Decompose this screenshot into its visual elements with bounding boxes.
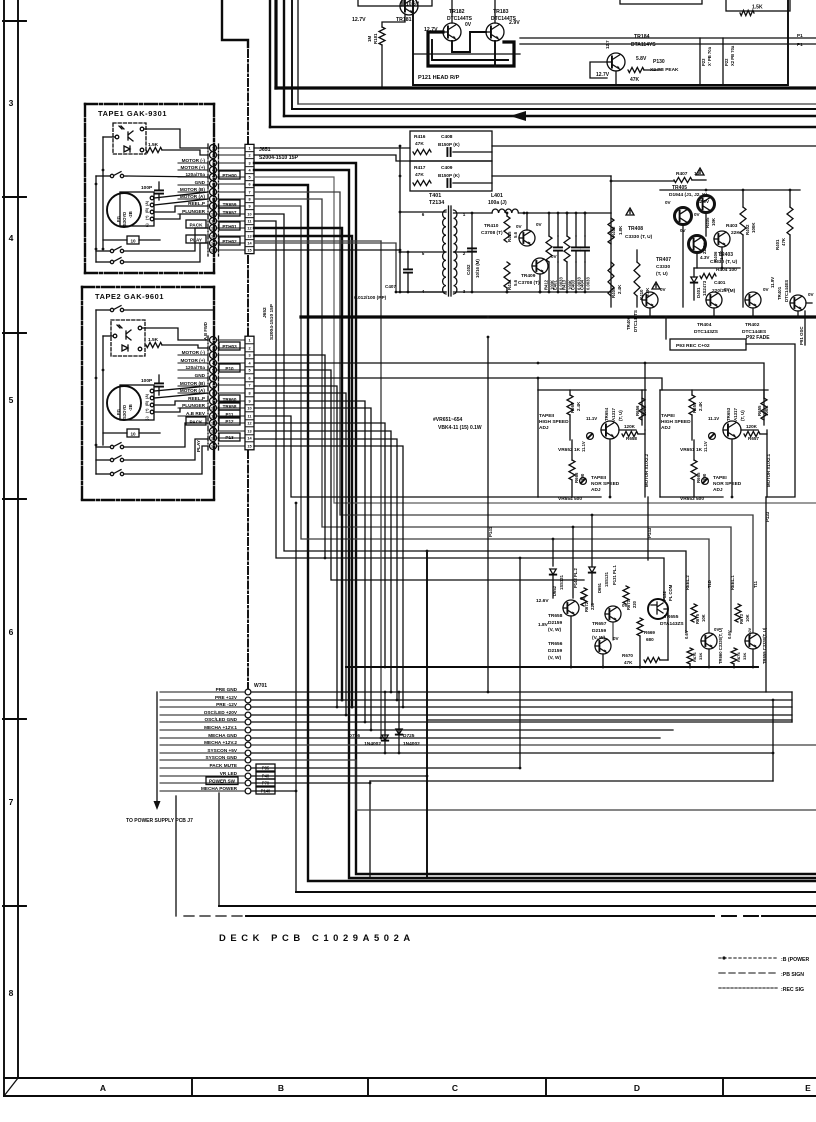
svg-text:TAPEII: TAPEII bbox=[591, 475, 607, 481]
svg-text:D652: D652 bbox=[552, 585, 557, 596]
transistor TR408 dark bbox=[675, 208, 692, 225]
motor terminal (+) bbox=[150, 210, 154, 214]
wire pin 10 to box bbox=[217, 407, 246, 409]
svg-text:(A): (A) bbox=[145, 393, 149, 399]
wire 1.5K to pin2 bbox=[162, 150, 208, 155]
bus bottom y916 dashed part bbox=[184, 915, 246, 917]
wire J651 p6 long route bottom bbox=[254, 185, 816, 881]
svg-text:9: 9 bbox=[212, 400, 214, 404]
resistor R656 symbol bbox=[639, 398, 645, 420]
wire TR402 emitter to rail bbox=[752, 308, 754, 317]
svg-text:0V: 0V bbox=[763, 287, 770, 292]
bus SYSCON GND to y810 bbox=[252, 760, 816, 810]
wire TR658 emitter down bbox=[570, 616, 572, 667]
svg-text:7: 7 bbox=[212, 384, 214, 388]
transistor TR655 circle bbox=[648, 599, 668, 619]
wire drop to VR section left bbox=[537, 378, 539, 390]
box fragment top edge 3 bbox=[620, 0, 702, 4]
wire drop x645 to motor line bbox=[644, 363, 646, 430]
pin 2 circle bbox=[210, 345, 217, 352]
transistor TR181 bbox=[400, 0, 418, 15]
svg-text:6: 6 bbox=[9, 627, 14, 637]
resistor 1.5K symbol bbox=[740, 10, 754, 15]
wire to switch2 bbox=[96, 250, 110, 252]
wire leaf to pin1 bbox=[144, 129, 208, 148]
wire R410 bottom bbox=[636, 296, 638, 307]
connector shell right dash bbox=[218, 144, 220, 256]
svg-text:3: 3 bbox=[248, 354, 250, 358]
svg-text:NOR SPEED: NOR SPEED bbox=[591, 481, 620, 487]
resistor R412 bbox=[546, 236, 552, 262]
tag box TR660 bbox=[219, 395, 240, 403]
wire D652 to TR658 bbox=[552, 576, 554, 598]
svg-text:R413: R413 bbox=[562, 279, 567, 290]
svg-text::PB SIGN: :PB SIGN bbox=[781, 972, 804, 978]
svg-text:TAPE2 GAK-9601: TAPE2 GAK-9601 bbox=[95, 292, 164, 301]
wire R197 right bbox=[644, 69, 660, 71]
svg-text:11.1V: 11.1V bbox=[586, 416, 597, 421]
pin 12 circle bbox=[210, 420, 217, 427]
wire J651 p15 to transformer bbox=[254, 249, 400, 251]
wire TR181 emitter to R181 bbox=[382, 14, 405, 27]
pin 6 circle bbox=[210, 181, 217, 188]
svg-text:C403: C403 bbox=[571, 279, 576, 290]
wire TR183 emitter down bbox=[494, 41, 496, 66]
resistor R404 bbox=[700, 273, 716, 278]
wire motor2 A to pin7 bbox=[154, 386, 208, 391]
svg-text:C404: C404 bbox=[580, 279, 585, 290]
wire P91 OSC down bbox=[804, 311, 806, 345]
bus W701 y692 bbox=[252, 691, 792, 693]
svg-text:TR659 C3330(T, U): TR659 C3330(T, U) bbox=[762, 627, 767, 664]
wire pin 5 to box bbox=[217, 176, 246, 178]
wire long vertical x427 bbox=[426, 551, 428, 878]
svg-text:PACK: PACK bbox=[190, 223, 204, 228]
resistor 1.5K TAPE2 bbox=[146, 342, 162, 347]
svg-text:13: 13 bbox=[247, 430, 251, 434]
wire TR406 emitter to rail bbox=[649, 308, 651, 317]
svg-text:P91 OSC: P91 OSC bbox=[799, 326, 804, 345]
wire TR407 down bbox=[696, 253, 698, 268]
svg-text:6: 6 bbox=[248, 183, 250, 187]
svg-text:C: C bbox=[452, 1083, 458, 1093]
wire R413 bottom bbox=[566, 262, 568, 292]
pin 12 circle bbox=[210, 225, 217, 232]
wire pin 3 to box bbox=[217, 354, 246, 356]
svg-text:7: 7 bbox=[212, 191, 214, 195]
wire VR section I top rail bbox=[660, 389, 768, 391]
svg-text:3: 3 bbox=[212, 162, 214, 166]
wire in box R416 bbox=[453, 151, 492, 153]
svg-text:R409: R409 bbox=[611, 287, 616, 298]
resistor box 10 bbox=[127, 236, 139, 244]
wire TR410 collector bbox=[526, 213, 528, 230]
wire pin 12 to box bbox=[217, 227, 246, 229]
svg-text:T11: T11 bbox=[753, 580, 758, 588]
svg-text:DTA143ZS: DTA143ZS bbox=[660, 621, 684, 627]
svg-text:C401: C401 bbox=[714, 280, 726, 286]
svg-text:R669: R669 bbox=[644, 630, 655, 635]
svg-text:8: 8 bbox=[212, 392, 214, 396]
wire C403 top bbox=[575, 213, 577, 236]
svg-text:C3708 (T): C3708 (T) bbox=[518, 280, 540, 286]
svg-text:P23: P23 bbox=[701, 58, 706, 66]
bus return y720 bbox=[427, 719, 792, 721]
W701 pin 14 circle bbox=[245, 788, 251, 794]
svg-text:8: 8 bbox=[212, 198, 214, 202]
svg-text:(A): (A) bbox=[145, 200, 149, 206]
wire T401 pin1 to L401 bbox=[454, 212, 493, 214]
capacitor C408 symbol bbox=[447, 148, 450, 156]
svg-text:R670: R670 bbox=[622, 653, 633, 658]
svg-text:ADJ: ADJ bbox=[661, 425, 671, 431]
wire switch1 to pin5 bbox=[124, 176, 208, 177]
svg-text:T1D: T1D bbox=[707, 580, 712, 588]
svg-text:MOTOR (+): MOTOR (+) bbox=[180, 358, 205, 363]
arrow left on bus y116 bbox=[510, 111, 526, 121]
wire pin 7 to box bbox=[217, 384, 246, 386]
wire C403 bottom bbox=[575, 262, 577, 292]
wire pin 1 to box bbox=[217, 339, 246, 341]
svg-text:10: 10 bbox=[247, 407, 251, 411]
wire R410 top bbox=[636, 250, 638, 262]
motor2 terminal (-) bbox=[150, 410, 154, 414]
svg-text:NOR SPEED: NOR SPEED bbox=[713, 481, 742, 487]
svg-text:PL COM: PL COM bbox=[668, 584, 673, 601]
svg-text:10/16 (M): 10/16 (M) bbox=[475, 259, 480, 278]
switch pack TAPE2 bbox=[110, 443, 123, 449]
wire TAPE1 left vertical outer bbox=[95, 176, 97, 262]
wire R413 top bbox=[566, 213, 568, 236]
svg-text:REEL.2: REEL.2 bbox=[685, 575, 690, 590]
transistor TR410 bbox=[519, 230, 535, 246]
svg-text:VBK4-11 (15) 0.1W: VBK4-11 (15) 0.1W bbox=[438, 425, 482, 431]
svg-text:12: 12 bbox=[211, 422, 215, 426]
wire TR405 emitter down bbox=[705, 213, 707, 236]
svg-text:1.8K: 1.8K bbox=[618, 225, 623, 235]
switch pack TAPE1 bbox=[110, 247, 123, 253]
tag box P85 bbox=[256, 764, 275, 771]
diode D401 bbox=[691, 277, 697, 283]
wire 100K resistor vertical bbox=[641, 390, 643, 425]
wire P1 line upper bbox=[520, 37, 816, 39]
wire D725 vertical bbox=[398, 692, 400, 753]
bus W701 pin7 bbox=[252, 737, 660, 739]
wire D651 feed bbox=[591, 515, 593, 566]
svg-text:B: B bbox=[278, 1083, 284, 1093]
svg-text:11.1V: 11.1V bbox=[581, 441, 586, 452]
svg-text:10: 10 bbox=[247, 213, 251, 217]
resistor R673 bbox=[735, 604, 741, 622]
svg-text:11: 11 bbox=[211, 220, 215, 224]
resistor R674 bbox=[731, 648, 737, 664]
wire TR654 emitter to 120K bbox=[619, 429, 636, 431]
bus W701 pin8 gray bbox=[252, 744, 816, 746]
svg-text:C408: C408 bbox=[441, 134, 453, 140]
svg-text:1.5K: 1.5K bbox=[752, 5, 763, 11]
svg-text:A: A bbox=[100, 1083, 106, 1093]
wire D726 vertical bbox=[384, 692, 386, 753]
wire MECHA POWER to pin bbox=[160, 790, 245, 792]
svg-text:47K: 47K bbox=[415, 141, 424, 147]
svg-text:100K: 100K bbox=[751, 222, 756, 233]
svg-text:5.6: 5.6 bbox=[513, 231, 518, 238]
svg-text:R181: R181 bbox=[373, 33, 378, 44]
wire pin 14 to box bbox=[217, 437, 246, 439]
svg-text:P93 REC C+02: P93 REC C+02 bbox=[676, 343, 710, 349]
W701 pin 12 circle bbox=[245, 773, 251, 779]
wire pin 12 to box bbox=[217, 422, 246, 424]
wire TR184 emitter down bbox=[615, 71, 617, 85]
svg-text:P132: P132 bbox=[662, 591, 667, 601]
wire TR660 emitter down bbox=[708, 649, 710, 667]
wire long vertical x296 bbox=[295, 503, 297, 892]
bus emitter line y667 bbox=[346, 666, 758, 668]
diode D652 bbox=[550, 569, 556, 575]
svg-text:P1: P1 bbox=[797, 42, 803, 47]
wire R412 bottom bbox=[548, 262, 550, 292]
svg-text:4: 4 bbox=[212, 362, 214, 366]
transformer core line 1 bbox=[448, 206, 450, 296]
svg-text:HIGH SPEED: HIGH SPEED bbox=[539, 419, 569, 425]
svg-text:9: 9 bbox=[248, 400, 250, 404]
wire TR653 down bbox=[731, 439, 733, 497]
svg-text:1M: 1M bbox=[367, 36, 372, 42]
motor terminal (-) bbox=[150, 217, 154, 221]
svg-text:33K: 33K bbox=[698, 653, 703, 660]
svg-text:R408: R408 bbox=[611, 226, 616, 237]
pin 15 circle bbox=[210, 247, 217, 254]
wire J652 p7 down bbox=[254, 386, 337, 707]
pin 1 circle bbox=[210, 145, 217, 152]
svg-text:13: 13 bbox=[211, 430, 215, 434]
svg-text:OSC/LED +20V: OSC/LED +20V bbox=[204, 710, 238, 715]
svg-text:15: 15 bbox=[247, 249, 251, 253]
bus W701 y707 bbox=[252, 706, 792, 708]
svg-text:PLUNGER: PLUNGER bbox=[182, 403, 206, 408]
warning triangle TR407 bbox=[652, 282, 660, 289]
transistor TR660 bbox=[701, 633, 717, 649]
wire vertical x298 bbox=[297, 0, 299, 104]
box P93 REC C+02 bbox=[670, 339, 746, 350]
wire x219 down to y906 bbox=[218, 793, 220, 906]
net box PLAY TAPE1 bbox=[186, 235, 206, 243]
resistor 1.5K TAPE1 bbox=[146, 147, 162, 152]
svg-text:5: 5 bbox=[212, 176, 214, 180]
resistor box 10 TAPE2 bbox=[127, 429, 139, 437]
resistor R670 symbol bbox=[644, 657, 660, 662]
capacitor 100P TAPE2 bbox=[155, 383, 163, 386]
svg-text:DTC143ZS: DTC143ZS bbox=[694, 329, 719, 335]
resistor R401 bbox=[787, 207, 793, 235]
box leaf switch dashed bbox=[113, 123, 146, 154]
pin 5 circle bbox=[210, 367, 217, 374]
box leaf switch dashed TAPE2 bbox=[111, 320, 145, 356]
motor frame TAPE2 bbox=[120, 385, 154, 420]
wire TR182 collector up bbox=[451, 0, 453, 23]
box TAPE2 left bbox=[81, 287, 83, 500]
svg-text:TR658: TR658 bbox=[548, 613, 563, 619]
svg-text:0.012/100 (PP): 0.012/100 (PP) bbox=[354, 295, 387, 301]
wire P23 vertical bbox=[699, 38, 701, 85]
wire J651 p7 bus y515 to T11 bbox=[254, 192, 753, 632]
wire T401 pin4 bbox=[400, 291, 446, 293]
svg-text:120a/70a: 120a/70a bbox=[185, 365, 205, 370]
resistor R658 symbol bbox=[622, 431, 638, 436]
wire J652 p11 to VR bottom rail bbox=[254, 416, 538, 497]
svg-text:P92 FADE: P92 FADE bbox=[746, 335, 770, 341]
svg-text:11.1V: 11.1V bbox=[703, 441, 708, 452]
wire R669 down bbox=[639, 636, 641, 667]
svg-text:8: 8 bbox=[248, 198, 250, 202]
wire to leaf contact bbox=[103, 136, 115, 138]
svg-text:D2159: D2159 bbox=[548, 648, 562, 654]
transistor TR655 internals bbox=[651, 602, 663, 614]
resistor R409 bbox=[608, 262, 614, 296]
svg-text:15: 15 bbox=[211, 445, 215, 449]
svg-text:R672: R672 bbox=[584, 601, 589, 612]
terminal number column bbox=[245, 144, 254, 253]
svg-text:D: D bbox=[634, 1083, 640, 1093]
svg-text:11: 11 bbox=[247, 220, 251, 224]
box TAPE2 top bbox=[82, 286, 214, 288]
svg-text:TR184: TR184 bbox=[634, 34, 650, 40]
svg-text:PACK: PACK bbox=[190, 420, 204, 425]
wire pin 11 to box bbox=[217, 415, 246, 417]
svg-text:C3330: C3330 bbox=[656, 264, 670, 270]
svg-text:VR653 500: VR653 500 bbox=[680, 496, 704, 502]
svg-text:VR654 500: VR654 500 bbox=[558, 496, 582, 502]
bus bottom y916 end bbox=[762, 915, 816, 917]
wire motor2 - to pin10 bbox=[154, 408, 208, 412]
box TAPE1 left bbox=[84, 104, 86, 273]
svg-text:10: 10 bbox=[130, 239, 136, 244]
wire R401 down bbox=[789, 235, 791, 292]
svg-text:MOTOR (+): MOTOR (+) bbox=[180, 165, 205, 170]
W701 pin 7 circle bbox=[245, 735, 251, 741]
wire dash-dot connector column mid bbox=[247, 256, 249, 336]
svg-text:1: 1 bbox=[248, 339, 250, 343]
tag box TR659 bbox=[219, 200, 240, 208]
wire TAPE2 left vertical outer bbox=[95, 310, 97, 474]
bus bottom y916 dashes right bbox=[700, 915, 762, 917]
svg-text:2: 2 bbox=[212, 347, 214, 351]
wire motor A to pin7 bbox=[154, 192, 208, 198]
box fragment top right bbox=[726, 0, 790, 11]
svg-text:5: 5 bbox=[212, 369, 214, 373]
wire TR656 emitter down bbox=[602, 654, 604, 667]
wire pin 13 to box bbox=[217, 430, 246, 432]
box fragment top edge 2 bbox=[404, 0, 432, 6]
svg-text:(T, U): (T, U) bbox=[740, 410, 745, 421]
capacitor C404 bbox=[581, 247, 589, 250]
svg-text:MECHA +12V.2: MECHA +12V.2 bbox=[204, 740, 237, 745]
svg-text:3: 3 bbox=[248, 162, 250, 166]
svg-text:MOTOR (-): MOTOR (-) bbox=[182, 350, 206, 355]
svg-text:R417: R417 bbox=[414, 165, 426, 171]
diode D725 bbox=[396, 729, 402, 735]
arrow to power supply bbox=[154, 801, 161, 810]
svg-text:7: 7 bbox=[248, 191, 250, 195]
svg-text:R402: R402 bbox=[745, 224, 750, 235]
svg-text:PRE GND: PRE GND bbox=[216, 687, 238, 692]
wire MECHA +12V.1 to pin bbox=[160, 729, 245, 731]
svg-text:MECHA +12V.1: MECHA +12V.1 bbox=[204, 725, 237, 730]
svg-text:MOTOR (A): MOTOR (A) bbox=[180, 388, 206, 393]
wire VR section I bottom rail bbox=[660, 496, 723, 498]
svg-text:14: 14 bbox=[211, 437, 215, 441]
bus line y116 with arrow bbox=[284, 115, 816, 117]
bus line y109 bbox=[292, 108, 816, 110]
wire P143 down bbox=[647, 497, 649, 560]
wire pin 8 to box bbox=[217, 392, 246, 394]
pin 3 circle bbox=[210, 352, 217, 359]
svg-text:TR656: TR656 bbox=[548, 641, 563, 647]
transistor TR656 bbox=[595, 638, 611, 654]
wire C407 lower bbox=[407, 274, 409, 292]
svg-text:P142 PL.2: P142 PL.2 bbox=[573, 568, 578, 588]
wire pin 8 to box bbox=[217, 198, 246, 200]
svg-text:C3708 (T): C3708 (T) bbox=[481, 230, 503, 236]
tag box PTH00 bbox=[219, 171, 240, 179]
bus line y176 from C409 bbox=[492, 175, 611, 177]
transistor TR406 bbox=[642, 292, 658, 308]
box P121 HEAD R/P outline bbox=[413, 0, 788, 85]
contact circle c bbox=[140, 148, 144, 152]
svg-text:EG: EG bbox=[116, 216, 121, 222]
wire J651 p10 bus y551 to REEL.2 bbox=[254, 214, 686, 632]
svg-text:R660: R660 bbox=[570, 402, 575, 413]
svg-text:E401: E401 bbox=[553, 280, 558, 290]
wire J652 p5 to R672 bbox=[254, 370, 584, 580]
wire dash-dot connector column upper bbox=[247, 50, 249, 144]
svg-text:2.4K: 2.4K bbox=[617, 284, 622, 294]
transistor TR184 bbox=[607, 53, 625, 71]
wire TR403 down bbox=[721, 247, 723, 268]
svg-text:OSC/LED GND: OSC/LED GND bbox=[204, 717, 237, 722]
wire TR401 emitter to rail bbox=[797, 311, 799, 317]
svg-text:6: 6 bbox=[422, 212, 425, 217]
svg-text:TR401: TR401 bbox=[777, 286, 782, 300]
wire vertical x292 bbox=[291, 0, 293, 109]
wire pin 10 to box bbox=[217, 213, 246, 215]
svg-text:120a/70a: 120a/70a bbox=[185, 172, 205, 177]
wire J651 p11 bus y558 to P132 bbox=[254, 221, 664, 599]
pin 11 circle bbox=[210, 413, 217, 420]
wire pin 9 to box bbox=[217, 205, 246, 207]
wire switch to pin12 TAPE2 bbox=[124, 423, 208, 447]
W701 pin 3 circle bbox=[245, 704, 251, 710]
capacitor E401 bbox=[554, 247, 562, 250]
svg-text:P1: P1 bbox=[797, 33, 803, 38]
svg-text:S3OYD: S3OYD bbox=[122, 212, 127, 226]
switch rev TAPE2 bbox=[110, 456, 123, 462]
wire pin 4 to box bbox=[217, 362, 246, 364]
pin 9 circle bbox=[210, 203, 217, 210]
svg-text:ADJ: ADJ bbox=[539, 425, 549, 431]
wire pin 11 to box bbox=[217, 220, 246, 222]
svg-text:7: 7 bbox=[248, 384, 250, 388]
svg-text:B150P (K): B150P (K) bbox=[438, 142, 460, 147]
svg-text:5: 5 bbox=[9, 395, 14, 405]
wire resistor 10 right bbox=[139, 239, 160, 241]
transistor TR401 bbox=[790, 295, 806, 311]
bus line y127 bbox=[270, 126, 816, 128]
svg-text:47K: 47K bbox=[781, 237, 786, 246]
bus line y88 bbox=[276, 86, 816, 89]
svg-text:S2004-1510 15P: S2004-1510 15P bbox=[259, 155, 298, 161]
svg-text:9: 9 bbox=[248, 205, 250, 209]
